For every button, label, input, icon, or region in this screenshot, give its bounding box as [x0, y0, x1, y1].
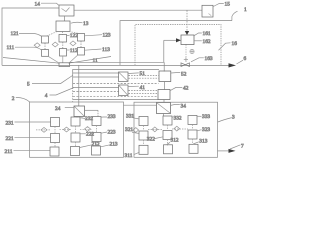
box 34: [157, 103, 171, 114]
wire 34 down: [163, 114, 165, 117]
label 15: [213, 2, 230, 8]
symbol diamond 3a: [133, 128, 139, 133]
funnel outlet box 11: [59, 63, 70, 67]
label 232: [80, 116, 93, 122]
symbol diamond d1: [34, 43, 40, 48]
box 41: [119, 85, 129, 96]
label 4: [45, 88, 74, 99]
label 161: [194, 31, 211, 37]
label 313: [193, 138, 207, 144]
symbol diamond 2a: [41, 128, 47, 133]
symbol flower: [190, 49, 194, 53]
svg-text:213: 213: [110, 141, 118, 147]
wire into 162 top: [185, 10, 189, 35]
svg-text:212: 212: [92, 141, 100, 147]
svg-text:221: 221: [6, 136, 14, 142]
box 231: [51, 118, 60, 127]
svg-text:311: 311: [125, 153, 133, 159]
box 162: [181, 35, 194, 45]
wire pipe to 24: [78, 65, 80, 106]
wire 122 to 112: [62, 42, 64, 49]
label 34: [171, 103, 186, 109]
label 323: [197, 127, 210, 133]
symbol diamond 2b: [64, 127, 70, 132]
svg-text:211: 211: [5, 149, 13, 155]
wire 162 down to valve: [185, 45, 187, 63]
svg-text:122: 122: [70, 33, 78, 39]
arrow 6: [229, 63, 237, 67]
label 3: [218, 114, 235, 122]
rect B dashed 16: [135, 25, 221, 66]
wire 14 to 15: [74, 9, 202, 11]
svg-text:323: 323: [202, 127, 210, 133]
label 24: [55, 106, 74, 112]
svg-text:6: 6: [244, 56, 247, 62]
svg-text:111: 111: [7, 45, 15, 51]
svg-text:163: 163: [205, 56, 213, 62]
svg-text:7: 7: [241, 144, 244, 150]
outlet 7: [218, 144, 245, 153]
box 14: [59, 5, 74, 16]
box 311: [139, 145, 148, 154]
label 13: [71, 21, 89, 27]
box 232: [71, 117, 80, 126]
box 122: [59, 35, 67, 43]
svg-text:231: 231: [6, 120, 14, 126]
conveyor 51-52: [129, 74, 159, 76]
box 52: [159, 71, 171, 82]
label 212: [80, 141, 100, 147]
box 213: [92, 146, 101, 155]
label 1: [232, 7, 247, 20]
box 111: [42, 50, 49, 57]
wires block2 columns: [36, 126, 97, 148]
svg-text:1: 1: [244, 7, 247, 13]
svg-text:313: 313: [199, 138, 207, 144]
block 3 outer rect: [134, 102, 218, 157]
label 221: [6, 136, 51, 142]
symbol diamond d3: [70, 41, 76, 46]
label 321: [125, 127, 139, 134]
wire 14 to 13: [64, 16, 66, 21]
svg-text:52: 52: [181, 71, 187, 77]
valve 163 bowtie: [181, 63, 190, 67]
svg-text:233: 233: [108, 114, 116, 120]
svg-text:121: 121: [11, 31, 19, 37]
rect A outer: [120, 21, 232, 66]
box 313: [189, 144, 198, 153]
box 333: [188, 116, 197, 125]
pipe bundle 4: [73, 83, 159, 85]
label 41: [128, 85, 145, 91]
label 231: [6, 120, 51, 126]
box 322: [163, 131, 172, 140]
box 123: [78, 34, 85, 42]
label 51: [128, 71, 145, 77]
symbol cross: [184, 57, 188, 61]
box 13: [56, 21, 70, 32]
svg-text:161: 161: [203, 31, 211, 37]
svg-text:13: 13: [83, 21, 89, 27]
symbol diamond 3b: [152, 127, 158, 132]
label 332: [172, 115, 182, 121]
label 223: [101, 130, 116, 136]
pipe bundle 5: [73, 68, 160, 70]
wire 13 to 121: [47, 32, 57, 37]
funnel 11 right side: [69, 57, 112, 64]
label 211: [5, 149, 51, 155]
wire 123 to 113: [80, 41, 82, 48]
wire 52-42: [164, 82, 166, 90]
wire 111 to funnel: [48, 56, 59, 63]
wire 13 to 122: [62, 32, 64, 35]
symbol diamond 2c: [85, 127, 91, 132]
svg-text:5: 5: [27, 82, 30, 88]
funnel 11 left side: [3, 58, 60, 64]
label 112: [67, 48, 78, 54]
symbol diamond 3c: [174, 126, 180, 131]
label 11: [93, 58, 98, 64]
label 163: [191, 56, 213, 62]
wire 24 down: [76, 117, 78, 118]
label 52: [171, 71, 187, 77]
label 333: [197, 114, 210, 120]
svg-text:41: 41: [140, 85, 146, 91]
label 331: [126, 113, 139, 119]
label 123: [85, 33, 111, 39]
svg-text:223: 223: [108, 130, 116, 136]
wire 121 to 111: [44, 43, 46, 50]
svg-text:42: 42: [183, 85, 189, 91]
box 113: [78, 48, 85, 56]
label 113: [85, 47, 110, 53]
label 42: [170, 85, 188, 91]
label 322: [147, 137, 163, 143]
svg-text:113: 113: [102, 47, 110, 53]
svg-text:312: 312: [171, 138, 179, 144]
wire gap 34: [124, 104, 157, 106]
svg-text:322: 322: [147, 137, 155, 143]
label 2: [12, 96, 30, 102]
svg-text:14: 14: [35, 1, 41, 7]
svg-text:162: 162: [203, 39, 211, 45]
box 323: [188, 130, 197, 139]
svg-text:2: 2: [12, 96, 15, 102]
wires block3 columns: [144, 125, 193, 147]
svg-text:222: 222: [86, 132, 94, 138]
svg-text:24: 24: [55, 106, 61, 112]
box 112: [60, 49, 67, 57]
label 111: [7, 45, 42, 51]
label 162: [194, 39, 211, 45]
box 312: [164, 145, 173, 154]
svg-text:232: 232: [85, 116, 93, 122]
wire 13 to 123: [69, 32, 79, 34]
svg-text:332: 332: [174, 115, 182, 121]
box 233: [92, 117, 101, 126]
wire 112 to funnel: [62, 56, 64, 63]
label 312: [167, 138, 179, 145]
wire 113 to funnel: [69, 55, 78, 63]
svg-text:331: 331: [126, 113, 134, 119]
svg-text:11: 11: [93, 58, 98, 64]
label 213: [101, 141, 118, 147]
box 221: [51, 134, 60, 143]
wire funnel 11 to 162: [70, 40, 164, 62]
box 331: [139, 117, 148, 126]
box 332: [163, 116, 172, 125]
svg-text:3: 3: [232, 114, 235, 120]
box 222: [71, 133, 80, 142]
svg-text:112: 112: [70, 48, 78, 54]
svg-text:123: 123: [103, 33, 111, 39]
box 121: [42, 36, 49, 43]
svg-text:333: 333: [202, 114, 210, 120]
wire bundle left vertical: [72, 69, 74, 87]
box 51: [119, 72, 129, 81]
label 14: [35, 1, 60, 7]
svg-text:15: 15: [225, 2, 231, 8]
box 24: [74, 106, 85, 117]
box 212: [71, 147, 80, 156]
box 321: [139, 131, 148, 140]
label 16: [219, 41, 238, 50]
svg-text:51: 51: [140, 71, 146, 77]
box 223: [92, 133, 101, 142]
wire 24 right: [85, 110, 99, 116]
symbol diamond d2: [52, 42, 58, 47]
wire junction to 52: [163, 62, 165, 71]
label 121: [11, 31, 42, 37]
pipe main: [2, 64, 229, 66]
svg-text:16: 16: [232, 41, 238, 47]
label 6: [237, 56, 247, 64]
enclosure 1 left/top edges: [2, 8, 59, 65]
label 122: [67, 33, 79, 39]
svg-text:4: 4: [45, 93, 48, 99]
label 222: [80, 132, 94, 138]
label 233: [101, 114, 116, 120]
block 2 outer rect: [30, 102, 124, 157]
box 42: [158, 90, 170, 100]
box 15: [202, 5, 213, 17]
conveyor 41-42: [129, 90, 158, 92]
label 311: [125, 152, 140, 159]
wire 42-34: [163, 100, 165, 103]
label 5: [27, 76, 73, 88]
wire into 162 left: [164, 38, 181, 42]
svg-text:34: 34: [181, 103, 187, 109]
box 211: [50, 147, 59, 156]
